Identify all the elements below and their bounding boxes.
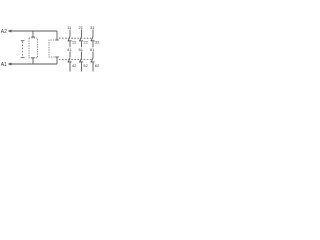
svg-text:51: 51 — [78, 47, 83, 52]
svg-text:22: 22 — [83, 40, 88, 45]
svg-text:12: 12 — [72, 40, 77, 45]
svg-text:41: 41 — [67, 47, 72, 52]
svg-text:42: 42 — [72, 63, 77, 68]
svg-text:A1: A1 — [1, 62, 7, 68]
svg-text:32: 32 — [95, 40, 100, 45]
svg-text:A2: A2 — [1, 29, 7, 35]
svg-text:21: 21 — [78, 25, 83, 30]
svg-text:52: 52 — [83, 63, 88, 68]
svg-text:62: 62 — [95, 63, 100, 68]
svg-text:61: 61 — [90, 47, 95, 52]
svg-text:31: 31 — [90, 25, 95, 30]
